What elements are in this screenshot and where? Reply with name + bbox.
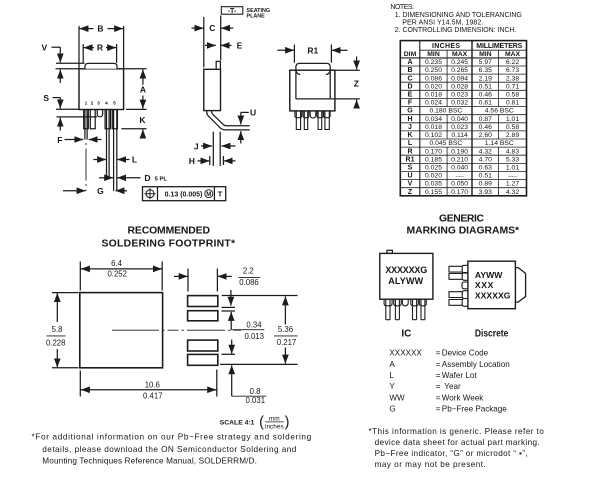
svg-text:1. DIMENSIONING AND TOLERANCIN: 1. DIMENSIONING AND TOLERANCING [395, 12, 522, 19]
svg-text:0.8: 0.8 [250, 387, 261, 396]
side view body [204, 69, 221, 110]
svg-text:A: A [140, 85, 146, 95]
svg-text:6.4: 6.4 [111, 259, 123, 268]
svg-text:0.013: 0.013 [244, 332, 264, 341]
svg-text:SCALE 4:1: SCALE 4:1 [220, 420, 255, 427]
svg-text:L: L [389, 371, 394, 380]
svg-text:2.89: 2.89 [506, 132, 519, 139]
svg-text:S: S [43, 93, 49, 103]
dim 2.2 extension lines [187, 269, 189, 292]
svg-text:0.023: 0.023 [451, 92, 468, 99]
svg-text:Pb−Free indicator, “G” or micr: Pb−Free indicator, “G” or microdot “ ▪”, [375, 449, 528, 458]
svg-text:0.58: 0.58 [506, 92, 519, 99]
svg-text:0.018: 0.018 [425, 124, 442, 131]
svg-text:=: = [436, 349, 441, 358]
svg-text:details, please download the O: details, please download the ON Semicond… [42, 445, 296, 454]
svg-text:A: A [389, 360, 395, 369]
svg-text:G: G [97, 186, 104, 196]
svg-text:DIM: DIM [404, 51, 417, 58]
svg-text:=: = [436, 382, 441, 391]
body bottom extension line (left) [56, 108, 79, 110]
svg-text:=: = [436, 360, 441, 369]
svg-text:=: = [436, 393, 441, 402]
svg-text:Pb−Free Package: Pb−Free Package [442, 405, 508, 414]
svg-text:G: G [407, 108, 413, 115]
pin 5 lead [113, 110, 115, 191]
svg-text:0.46: 0.46 [479, 92, 492, 99]
IC package body [380, 253, 433, 299]
svg-text:5 PL: 5 PL [155, 176, 168, 182]
svg-text:0.46: 0.46 [479, 124, 492, 131]
svg-text:*This information is generic.: *This information is generic. Please ref… [369, 427, 545, 436]
discrete lead 2 [449, 273, 468, 281]
svg-text:4.70: 4.70 [479, 156, 492, 163]
svg-text:MARKING DIAGRAMS*: MARKING DIAGRAMS* [407, 225, 520, 236]
svg-text:1.14 BSC: 1.14 BSC [485, 140, 514, 147]
svg-text:R: R [97, 43, 103, 53]
svg-text:3.93: 3.93 [479, 189, 492, 196]
svg-text:C: C [407, 75, 412, 82]
svg-text:(: ( [259, 415, 264, 431]
svg-text:0.63: 0.63 [479, 165, 492, 172]
svg-text:0.086: 0.086 [239, 278, 259, 287]
svg-text:WW: WW [389, 393, 405, 402]
svg-text:Device Code: Device Code [442, 349, 489, 358]
svg-text:K: K [407, 132, 412, 139]
svg-text:R1: R1 [406, 156, 415, 163]
footprint pad C [188, 340, 218, 351]
svg-text:0.018: 0.018 [425, 92, 442, 99]
svg-text:S: S [408, 165, 413, 172]
svg-text:0.245: 0.245 [451, 59, 468, 66]
svg-text:Assembly Location: Assembly Location [442, 360, 510, 369]
svg-text:0.58: 0.58 [506, 124, 519, 131]
pin 3 stub (short, rounded end) [97, 110, 102, 117]
svg-text:0.185: 0.185 [425, 156, 442, 163]
svg-text:V: V [41, 42, 47, 52]
pin 1 centerline [85, 143, 87, 191]
svg-text:Year: Year [444, 382, 461, 391]
feature control frame [143, 187, 226, 201]
svg-text:0.170: 0.170 [451, 189, 468, 196]
dim C extension lines [203, 17, 205, 68]
svg-text:0.028: 0.028 [451, 83, 468, 90]
svg-text:0.71: 0.71 [506, 83, 519, 90]
svg-text:0.180 BSC: 0.180 BSC [429, 108, 462, 115]
svg-text:0.025: 0.025 [425, 165, 442, 172]
footprint pad B [188, 311, 218, 321]
svg-text:U: U [250, 108, 256, 118]
svg-text:5.36: 5.36 [278, 325, 293, 334]
svg-text:2.38: 2.38 [506, 75, 519, 82]
svg-text:4.56 BSC: 4.56 BSC [485, 108, 514, 115]
dim A [142, 70, 144, 85]
back pin 1 [295, 111, 302, 130]
back view body [290, 70, 335, 111]
svg-text:MAX: MAX [452, 51, 468, 58]
svg-text:0.020: 0.020 [425, 173, 442, 180]
svg-text:Y: Y [389, 382, 395, 391]
svg-text:6.73: 6.73 [506, 67, 519, 74]
dim R extension lines [82, 44, 84, 63]
dim Z extension lines [335, 69, 360, 71]
svg-text:B: B [97, 24, 103, 34]
svg-text:0.190: 0.190 [451, 148, 468, 155]
dim B extension lines [78, 26, 80, 69]
dim 0.34 upper arrow [230, 290, 232, 306]
svg-text:): ) [285, 415, 290, 431]
svg-text:0.035: 0.035 [425, 181, 442, 188]
svg-text:D: D [407, 83, 412, 90]
svg-text:R: R [407, 148, 412, 155]
body top extension line (left) [56, 68, 80, 70]
dim B [79, 28, 93, 30]
svg-text:0.094: 0.094 [451, 75, 468, 82]
back tab bottom line [296, 98, 330, 100]
pin 1 lead [84, 110, 86, 140]
dim 5.8 extension lines [52, 292, 79, 294]
svg-text:XXX: XXX [475, 280, 494, 290]
stub bottom extension line (right) [121, 128, 146, 130]
svg-text:0.020: 0.020 [425, 83, 442, 90]
footprint pad A [188, 296, 218, 307]
svg-text:0.87: 0.87 [479, 116, 492, 123]
svg-text:MILLIMETERS: MILLIMETERS [476, 43, 522, 50]
dim C [192, 27, 204, 29]
dim 0.8 upper arrow [231, 340, 233, 354]
svg-text:mm: mm [269, 415, 280, 422]
dim R [84, 47, 94, 49]
straight lead [212, 132, 214, 166]
svg-text:0.031: 0.031 [246, 396, 266, 405]
svg-text:0.417: 0.417 [143, 392, 163, 401]
dim 0.34 tick lines [222, 306, 236, 308]
footprint main pad [80, 293, 163, 368]
svg-text:Z: Z [354, 78, 359, 88]
marking legend [389, 349, 509, 414]
dim S lower arrow [59, 118, 61, 131]
svg-text:B: B [407, 67, 412, 74]
svg-text:2. CONTROLLING DIMENSION: INCH: 2. CONTROLLING DIMENSION: INCH. [395, 27, 517, 34]
dim 5.36 [284, 296, 286, 324]
pin 1 stub [84, 110, 89, 129]
svg-text:inches: inches [265, 424, 285, 431]
front view package body [79, 69, 124, 110]
svg-text:0.217: 0.217 [277, 338, 297, 347]
svg-text:0.114: 0.114 [451, 132, 468, 139]
svg-text:MIN: MIN [479, 51, 492, 58]
svg-text:INCHES: INCHES [432, 43, 460, 50]
dim R1 extension lines [293, 45, 295, 63]
dome top extension line [56, 62, 85, 64]
svg-text:device data sheet for actual p: device data sheet for actual part markin… [375, 438, 540, 447]
right footnote [369, 427, 545, 469]
dim 6.4 [81, 268, 162, 270]
svg-text:0.81: 0.81 [506, 100, 519, 107]
svg-text:0.13 (0.005): 0.13 (0.005) [165, 191, 203, 198]
svg-text:0.040: 0.040 [451, 165, 468, 172]
dim H ticks [209, 156, 211, 165]
pin 4 lead [106, 110, 108, 178]
svg-text:ALYWW: ALYWW [388, 276, 423, 286]
svg-text:4: 4 [105, 101, 108, 107]
IC pin 1 [384, 299, 426, 320]
M modifier circle [205, 190, 213, 198]
svg-text:0.050: 0.050 [451, 181, 468, 188]
svg-text:4.32: 4.32 [506, 189, 519, 196]
dim R1 [278, 49, 295, 51]
svg-text:0.252: 0.252 [107, 269, 127, 278]
svg-text:may or may not be present.: may or may not be present. [375, 460, 486, 469]
svg-text:=: = [436, 371, 441, 380]
svg-text:R1: R1 [307, 46, 318, 56]
svg-text:D: D [144, 173, 150, 183]
back tab ears [296, 70, 300, 74]
dim 10.6 [81, 389, 217, 391]
bent lead (gull wing) [207, 111, 250, 130]
svg-text:RECOMMENDED: RECOMMENDED [128, 225, 211, 236]
svg-text:-T-: -T- [228, 8, 237, 15]
svg-text:H: H [189, 156, 195, 166]
svg-text:2: 2 [91, 101, 94, 107]
svg-text:NOTES:: NOTES: [390, 4, 414, 11]
svg-text:1: 1 [85, 101, 88, 107]
pin 2 stub [90, 110, 95, 129]
svg-text:XXXXXXG: XXXXXXG [385, 265, 427, 275]
svg-text:M: M [206, 192, 211, 198]
svg-text:PLANE: PLANE [247, 14, 266, 20]
dim D [99, 177, 113, 179]
discrete lead 4 [449, 291, 468, 299]
svg-text:0.024: 0.024 [425, 100, 442, 107]
svg-text:0.34: 0.34 [246, 320, 262, 329]
seating plane datum box [221, 7, 243, 15]
svg-text:10.6: 10.6 [145, 381, 160, 390]
svg-text:0.265: 0.265 [451, 67, 468, 74]
svg-text:6.22: 6.22 [506, 59, 519, 66]
svg-text:0.045 BSC: 0.045 BSC [429, 140, 462, 147]
svg-text:MIN: MIN [427, 51, 440, 58]
pin 5 stub [112, 110, 117, 129]
svg-text:2.19: 2.19 [479, 75, 492, 82]
true position symbol [146, 190, 154, 198]
svg-text:PER ANSI Y14.5M, 1982.: PER ANSI Y14.5M, 1982. [402, 19, 483, 26]
back view tab dome [296, 63, 330, 70]
svg-text:2.2: 2.2 [243, 267, 254, 276]
front view tab dome [85, 63, 117, 68]
svg-text:0.170: 0.170 [425, 148, 442, 155]
dim 5.8 [56, 293, 58, 322]
svg-text:1.01: 1.01 [506, 116, 519, 123]
dim U lower arrow [240, 131, 242, 143]
svg-text:E: E [408, 92, 413, 99]
svg-text:T: T [218, 190, 223, 199]
discrete package body [468, 261, 516, 309]
discrete marking text [475, 270, 511, 300]
svg-text:H: H [407, 116, 412, 123]
dim V lower arrow [59, 70, 61, 83]
svg-text:0.228: 0.228 [46, 338, 66, 347]
svg-text:SOLDERING FOOTPRINT*: SOLDERING FOOTPRINT* [102, 238, 236, 249]
dim 2.2 [174, 275, 188, 277]
svg-text:L: L [132, 155, 137, 165]
svg-text:4.83: 4.83 [506, 148, 519, 155]
svg-text:-----: ----- [455, 174, 464, 180]
svg-text:MAX: MAX [505, 51, 521, 58]
svg-text:F: F [408, 100, 413, 107]
svg-text:0.235: 0.235 [425, 59, 442, 66]
discrete lead 1 [449, 265, 468, 273]
svg-text:Z: Z [408, 189, 413, 196]
discrete lead 5 [449, 299, 468, 307]
IC package tab [387, 250, 392, 253]
svg-text:J: J [194, 141, 199, 151]
footprint centerline [112, 329, 241, 331]
pin 4 stub [105, 110, 110, 129]
dim 0.34 lower arrow [230, 312, 232, 330]
svg-text:=: = [436, 405, 441, 414]
left footnote [32, 433, 312, 466]
dim 0.8 lower arrow [231, 365, 233, 396]
svg-text:XXXXXG: XXXXXG [475, 290, 511, 300]
pad D bottom extension line [220, 363, 298, 365]
dim 6.4 extension lines [79, 262, 81, 291]
dim 10.6 extension lines [79, 371, 81, 397]
dim E [205, 44, 216, 46]
svg-text:5.97: 5.97 [479, 59, 492, 66]
svg-text:0.89: 0.89 [479, 181, 492, 188]
svg-text:V: V [408, 181, 413, 188]
svg-text:Discrete: Discrete [475, 328, 509, 339]
back pin 5 [324, 111, 330, 130]
svg-text:4.32: 4.32 [479, 148, 492, 155]
svg-text:3: 3 [97, 101, 100, 107]
svg-text:0.102: 0.102 [425, 132, 442, 139]
svg-text:5.8: 5.8 [52, 325, 63, 334]
svg-text:-----: ----- [508, 174, 517, 180]
svg-text:K: K [139, 115, 146, 125]
svg-text:0.040: 0.040 [451, 116, 468, 123]
svg-text:0.250: 0.250 [425, 67, 442, 74]
footprint pad D [188, 354, 218, 365]
pad A top extension line [222, 295, 298, 297]
dimension table [400, 41, 526, 196]
svg-text:0.51: 0.51 [479, 173, 492, 180]
back pin 2 [303, 111, 309, 130]
svg-text:C: C [209, 23, 215, 33]
svg-text:0.023: 0.023 [451, 124, 468, 131]
back pin 4 [317, 111, 323, 130]
svg-text:5.33: 5.33 [506, 156, 519, 163]
svg-text:Work Week: Work Week [442, 393, 484, 402]
svg-text:0.034: 0.034 [425, 116, 442, 123]
svg-text:IC: IC [401, 328, 411, 339]
svg-text:0.210: 0.210 [451, 156, 468, 163]
svg-text:0.086: 0.086 [425, 75, 442, 82]
svg-text:Wafer Lot: Wafer Lot [442, 371, 478, 380]
svg-text:XXXXXX: XXXXXX [389, 349, 422, 358]
discrete lead 3 (short) [462, 282, 468, 289]
svg-text:G: G [389, 405, 395, 414]
body bottom extension line (right) [126, 108, 147, 110]
svg-text:F: F [57, 135, 62, 145]
svg-text:0.61: 0.61 [479, 100, 492, 107]
svg-text:5: 5 [113, 101, 116, 107]
svg-text:J: J [408, 124, 412, 131]
svg-text:0.155: 0.155 [425, 189, 442, 196]
svg-text:1.27: 1.27 [506, 181, 519, 188]
IC pin 2 [394, 299, 396, 320]
seating plane label [247, 8, 271, 20]
svg-text:*For additional information on: *For additional information on our Pb−Fr… [32, 433, 312, 442]
IC pin 4 [412, 299, 414, 320]
IC pin 5 [420, 299, 422, 320]
svg-text:GENERIC: GENERIC [439, 213, 484, 224]
body top extension line (right) [124, 68, 147, 70]
svg-text:E: E [237, 41, 243, 51]
svg-text:AYWW: AYWW [475, 270, 503, 280]
dim L [93, 159, 106, 161]
svg-text:1.01: 1.01 [506, 165, 519, 172]
svg-text:0.51: 0.51 [479, 83, 492, 90]
IC marking text [385, 265, 427, 286]
svg-text:U: U [407, 173, 412, 180]
side view tab [216, 61, 220, 69]
svg-text:6.35: 6.35 [479, 67, 492, 74]
svg-text:Mounting Techniques Reference: Mounting Techniques Reference Manual, SO… [42, 456, 257, 465]
back tab side lines [295, 70, 297, 99]
discrete package tab [515, 268, 525, 303]
svg-text:0.032: 0.032 [451, 100, 468, 107]
pin numbers 1-5 [85, 101, 117, 107]
section titles [102, 213, 520, 249]
dim Z [356, 57, 358, 70]
IC pin 3 (short, rounded) [402, 299, 408, 306]
back pin 3 (short, rounded end) [310, 111, 316, 118]
dim G [63, 190, 86, 192]
notes text [390, 4, 521, 34]
svg-text:2.60: 2.60 [479, 132, 492, 139]
svg-text:A: A [407, 59, 412, 66]
svg-text:L: L [408, 140, 413, 147]
pin 3 tip extension line [57, 116, 98, 118]
